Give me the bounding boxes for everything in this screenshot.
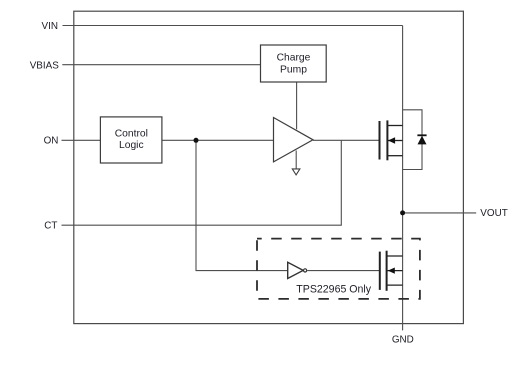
- svg-text:Control: Control: [115, 129, 148, 140]
- svg-text:VIN: VIN: [42, 21, 58, 32]
- svg-text:CT: CT: [44, 221, 57, 232]
- svg-text:GND: GND: [392, 335, 414, 346]
- svg-text:VOUT: VOUT: [480, 208, 507, 219]
- svg-text:Pump: Pump: [280, 64, 307, 75]
- svg-text:ON: ON: [44, 135, 59, 146]
- svg-text:TPS22965 Only: TPS22965 Only: [296, 283, 371, 295]
- svg-text:Charge: Charge: [277, 53, 311, 64]
- svg-text:Logic: Logic: [119, 140, 144, 151]
- svg-text:VBIAS: VBIAS: [30, 60, 60, 71]
